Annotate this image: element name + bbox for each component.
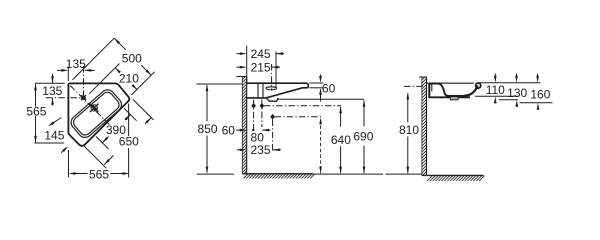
svg-text:215: 215 — [251, 60, 271, 74]
svg-text:235: 235 — [250, 143, 270, 157]
svg-text:110: 110 — [486, 83, 505, 97]
svg-text:565: 565 — [26, 105, 46, 119]
svg-text:135: 135 — [42, 84, 62, 98]
svg-text:160: 160 — [530, 88, 550, 102]
svg-text:245: 245 — [251, 47, 271, 61]
svg-text:640: 640 — [331, 133, 351, 147]
svg-text:565: 565 — [89, 168, 109, 182]
svg-text:690: 690 — [353, 129, 373, 143]
svg-text:810: 810 — [399, 123, 419, 137]
svg-text:60: 60 — [222, 123, 236, 137]
svg-text:850: 850 — [197, 122, 217, 136]
svg-text:500: 500 — [122, 51, 142, 65]
svg-text:210: 210 — [119, 72, 139, 86]
svg-text:60: 60 — [322, 82, 336, 96]
svg-text:130: 130 — [507, 86, 527, 100]
svg-text:145: 145 — [44, 129, 64, 143]
svg-text:650: 650 — [119, 135, 139, 149]
